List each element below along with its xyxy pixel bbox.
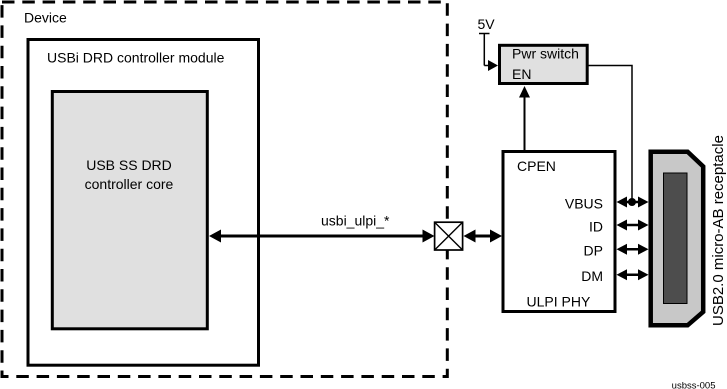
USB micro-AB receptacle body: [651, 152, 704, 326]
receptacle slot: [664, 173, 688, 304]
svg-text:Device: Device: [24, 10, 67, 26]
wire: DM double arrow: [617, 269, 649, 280]
svg-text:ULPI PHY: ULPI PHY: [527, 294, 591, 310]
svg-text:EN: EN: [512, 66, 531, 82]
svg-text:ID: ID: [589, 219, 603, 235]
USB SS DRD controller core box: [52, 92, 207, 329]
svg-text:DM: DM: [581, 268, 603, 284]
ULPI PHY box (CPEN): [503, 152, 615, 312]
wire: Pwr switch output to VBUS net: [588, 66, 632, 203]
svg-text:USB SS DRD: USB SS DRD: [86, 157, 172, 173]
junction dot on VBUS net: [628, 198, 636, 206]
svg-text:5V: 5V: [478, 16, 496, 32]
svg-text:DP: DP: [584, 243, 603, 259]
crossed box connector: [435, 222, 463, 250]
svg-text:usbss-005: usbss-005: [672, 381, 716, 389]
wire: 5V supply into Pwr switch: [479, 34, 498, 72]
svg-text:Pwr switch: Pwr switch: [512, 46, 579, 62]
svg-text:CPEN: CPEN: [517, 158, 556, 174]
device boundary box (dashed): [2, 2, 447, 377]
svg-text:USBi DRD controller module: USBi DRD controller module: [47, 50, 225, 66]
wire: crossed box to ULPI PHY (double arrow): [464, 230, 503, 243]
Pwr switch box: [500, 45, 588, 83]
wire: CPEN to Pwr switch EN (up arrow): [519, 86, 530, 151]
wire: ID double arrow: [617, 220, 649, 231]
svg-text:USB2.0 micro-AB receptacle: USB2.0 micro-AB receptacle: [710, 135, 727, 326]
svg-text:VBUS: VBUS: [565, 196, 603, 212]
svg-text:controller core: controller core: [85, 176, 174, 192]
USBi DRD controller module box: [28, 40, 259, 366]
wire: DP double arrow: [617, 244, 649, 255]
wire: usbi_ulpi bus (double arrow, core to crossed box): [209, 230, 435, 243]
wire: VBUS double arrow (PHY to receptacle): [617, 197, 649, 208]
svg-text:usbi_ulpi_*: usbi_ulpi_*: [321, 213, 390, 229]
